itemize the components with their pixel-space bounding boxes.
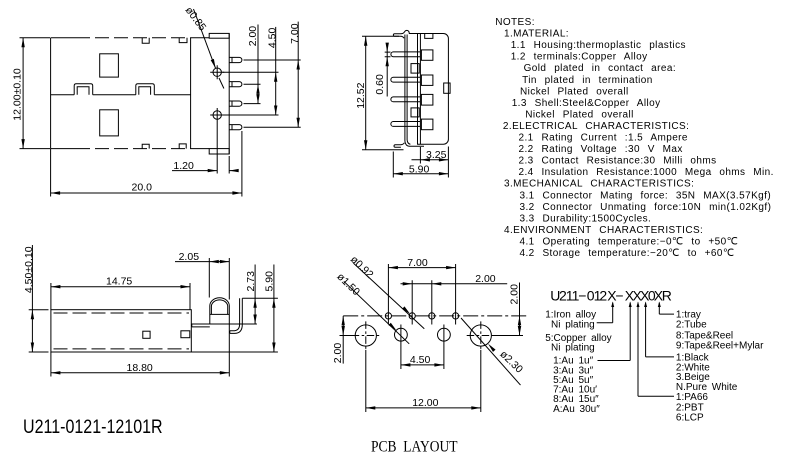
spacer rib 2 [411,108,419,117]
lead strip lines [191,324,257,327]
svg-text:3.2 Connector Unmating force:1: 3.2 Connector Unmating force:10N min(1.0… [520,202,772,213]
dim 3.25 extension lines [420,147,448,178]
dim 2.00 left extension tick [340,335,355,337]
svg-text:9:Tape&Reel+Mylar: 9:Tape&Reel+Mylar [676,340,764,351]
svg-text:7.00: 7.00 [289,23,301,44]
svg-text:14.75: 14.75 [106,276,132,288]
svg-text:3.25: 3.25 [426,149,447,161]
body top edge solid part [51,37,76,39]
contact pin 2 [391,77,421,82]
body top edge dashed part [76,37,191,39]
svg-text:3.MECHANICAL CHARACTERISTICS:: 3.MECHANICAL CHARACTERISTICS: [504,179,694,190]
contact pin 1 [391,52,421,57]
dim 20.0 extension lines [51,131,242,197]
seam bump 1 inner [77,87,89,95]
svg-text:Ni plating: Ni plating [551,320,595,331]
leader verticals [613,303,660,397]
svg-text:PCB LAYOUT: PCB LAYOUT [371,439,458,456]
flange right edge [228,33,230,154]
svg-text:1.1 Housing:thermoplastic plas: 1.1 Housing:thermoplastic plastics [511,40,686,51]
svg-text:U211-0121-12101R: U211-0121-12101R [23,416,163,438]
bottom shell hook [394,140,424,147]
svg-text:NOTES:: NOTES: [495,17,535,28]
terminal block 3 [421,94,433,105]
terminal block 4 [421,119,433,130]
svg-text:12.52: 12.52 [355,82,367,108]
svg-text:2:Tube: 2:Tube [676,320,707,331]
top edge tab 2 [179,38,187,43]
dim 12.00 line [22,38,24,149]
leader dia 0.92 [353,263,424,329]
svg-text:Nickel Plated overall: Nickel Plated overall [525,109,634,120]
inner wall line [419,34,421,145]
top edge notch [425,34,433,39]
svg-text:ø2.30: ø2.30 [497,348,525,375]
svg-text:0.60: 0.60 [374,74,386,95]
right side bump [444,83,450,93]
dim 4.50 line [31,245,33,352]
shell hole left [355,325,376,346]
dim 2.00 top extension lines [412,280,432,324]
dim 2.05 line [175,261,229,263]
flange top tab [209,33,229,38]
dim 12.52 extension lines [362,36,404,150]
svg-text:18.80: 18.80 [127,362,153,374]
body bottom edge dashed part [76,148,191,150]
bottom edge tab 1 [142,144,149,148]
svg-text:3.3 Durability:1500Cycles.: 3.3 Durability:1500Cycles. [520,213,652,224]
crimp dome outer [210,298,230,377]
svg-text:2.1 Rating Current :1.5 Ampere: 2.1 Rating Current :1.5 Ampere [519,133,688,144]
svg-text:ø1.50: ø1.50 [334,271,362,298]
mid hole 2 [438,328,451,341]
dim 5.90 line [393,173,448,175]
dim 12.52 line [365,36,367,150]
svg-text:2.00: 2.00 [247,26,259,47]
body right edge [190,38,192,149]
dim 18.80 line [51,372,229,374]
pin top edge / extension [242,297,278,299]
svg-text:1:PA66: 1:PA66 [676,392,708,403]
centerline [343,315,527,317]
svg-text:2.2 Rating Voltage :30 V Max: 2.2 Rating Voltage :30 V Max [519,144,683,155]
svg-text:Nickel Plated overall: Nickel Plated overall [520,86,629,97]
shell hole upper [100,54,119,77]
pin 4 [229,125,242,130]
pin 1 [229,57,242,62]
seam bump 2 outer [136,84,155,95]
centerline below circle 2 to 1.20 dim [216,122,218,174]
leader horizontals [597,314,674,396]
dim 3.25 line [412,159,449,161]
solder hole circle 1 [213,68,221,76]
svg-text:3.1 Connector Mating force: 35: 3.1 Connector Mating force: 35N MAX(3.57… [520,190,772,201]
leader dia 1.50 [344,281,409,344]
svg-text:12.00±0.10: 12.00±0.10 [12,68,24,121]
dim 7.00 line [297,22,299,128]
svg-text:2.00: 2.00 [475,273,496,285]
svg-text:4.ENVIRONMENT CHARACTERISTICS:: 4.ENVIRONMENT CHARACTERISTICS: [504,225,703,236]
svg-text:4.2 Storage temperature:−20℃ t: 4.2 Storage temperature:−20℃ to +60℃ [520,248,735,259]
dim 7.00 extension lines [388,264,455,325]
circle 1 crosshair [210,65,224,79]
svg-text:4.50: 4.50 [410,354,431,366]
dashed shell line bottom [54,348,190,350]
pin hole 4 [453,313,459,319]
pin/circle extension lines right [223,60,301,127]
dim 5.90 line [273,265,275,353]
svg-text:2.05: 2.05 [179,251,200,263]
pin 2 [229,82,242,87]
dim 1.20 extension line right [228,156,230,174]
leader dia 2.30 [461,318,521,385]
svg-text:ø0.92: ø0.92 [348,254,376,281]
dim 12.00 extension lines [20,38,51,149]
small square hole 2 [181,331,190,338]
small square hole 1 [143,331,150,338]
pin hole 3 [429,313,435,319]
svg-text:1.20: 1.20 [173,160,194,172]
seam bump 2 inner [139,87,151,95]
svg-text:2.3 Contact Resistance:30 Mill: 2.3 Contact Resistance:30 Milli ohms [519,156,717,167]
bottom edge tab 2 [179,144,186,149]
dim 5.90 extension line left [392,152,394,178]
svg-text:2.ELECTRICAL CHARACTERISTICS:: 2.ELECTRICAL CHARACTERISTICS: [503,121,689,132]
svg-text:20.0: 20.0 [132,182,153,194]
svg-text:1.2 terminals:Copper Alloy: 1.2 terminals:Copper Alloy [511,52,648,63]
svg-text:Tin plated in termination: Tin plated in termination [522,75,653,86]
svg-text:12.00: 12.00 [412,397,438,409]
terminal block 2 [421,75,433,85]
svg-text:U211−012X−XXX0XR: U211−012X−XXX0XR [550,287,672,303]
mid hole 1 [395,328,408,341]
svg-text:1.MATERIAL:: 1.MATERIAL: [504,29,569,40]
dim 14.75 extension lines [51,283,190,310]
dim 0.60 extension ticks [385,52,391,57]
svg-text:Ni plating: Ni plating [551,343,595,354]
spacer rib 1 [411,64,419,74]
svg-text:2.00: 2.00 [332,343,344,364]
svg-text:1.3 Shell:Steel&Copper Alloy: 1.3 Shell:Steel&Copper Alloy [512,98,661,109]
svg-text:2.00: 2.00 [509,284,521,305]
dim 4.50 line [401,364,444,366]
leader tail through circle [219,78,224,89]
pin hole 1 [385,313,391,319]
dim 0.60 line [386,44,388,97]
bent hold-down pin outer [230,298,243,333]
svg-text:A:Au 30u″: A:Au 30u″ [553,404,600,415]
dim 4.50±0.10 extension lines [29,310,49,352]
dim 12.00 line [366,407,481,409]
solder hole circle 2 [213,111,221,119]
seam bump 1 outer [74,84,93,95]
body edge to flange top [191,37,210,39]
dashed shell line top [54,312,190,314]
dim 2.05 extension lines [209,258,229,300]
dim 2.00 right line [519,283,521,336]
pin hole 2 [409,313,415,319]
shell hole right [470,325,491,346]
body left edge [50,38,52,149]
svg-text:Gold plated in contact area:: Gold plated in contact area: [524,63,676,74]
shell hole lower [100,110,119,136]
leader line dia 0.85 [194,9,216,68]
dim 1.20 lines [172,170,239,172]
dim 2.00 right extension tick [492,335,523,337]
dim 2.00 line [257,25,259,104]
contact pin 4 [391,122,421,127]
dim 18.80 extension lines [50,352,52,377]
middle seam line [51,94,191,96]
dim 4.50 line [275,27,277,115]
body bottom edge solid part [51,148,76,150]
tongue left face double line [405,35,407,142]
crimp dome chord [210,313,230,315]
dim 7.00 line [388,267,455,269]
contact pin 3 [391,97,421,102]
svg-text:4.50: 4.50 [267,28,279,49]
svg-text:5.90: 5.90 [409,163,430,175]
dim 14.75 line [51,286,190,288]
crimp dome inner [211,300,227,315]
dim 12.00 extension lines [366,350,481,412]
dim 2.00 top line [401,283,508,285]
svg-text:4.50±0.10: 4.50±0.10 [23,246,35,293]
body bottom extension to right [191,351,278,353]
pin 3 [229,101,242,106]
svg-text:5.90: 5.90 [264,271,276,292]
dim 2.73 line [254,265,256,325]
dim 2.00 left line [342,316,344,364]
svg-text:2.4 Insulation Resistance:1000: 2.4 Insulation Resistance:1000 Mega ohms… [519,167,774,178]
body outline [51,310,191,352]
svg-text:7.00: 7.00 [407,257,428,269]
svg-text:4.1 Operating temperature:−0℃: 4.1 Operating temperature:−0℃ to +50℃ [520,237,739,248]
svg-text:2.73: 2.73 [245,271,257,292]
top edge tab 1 [142,38,149,43]
terminal block 1 [421,50,433,60]
svg-text:ø0.85: ø0.85 [183,5,209,34]
body rounded outline [418,34,449,145]
bent hold-down pin inner [230,298,240,331]
flange bottom tab [209,149,229,154]
svg-text:6:LCP: 6:LCP [676,413,704,424]
circle 2 crosshair [210,108,224,122]
body edge to flange bottom [191,148,210,150]
dim 20.0 line [51,192,242,194]
top shell hook [393,30,417,38]
